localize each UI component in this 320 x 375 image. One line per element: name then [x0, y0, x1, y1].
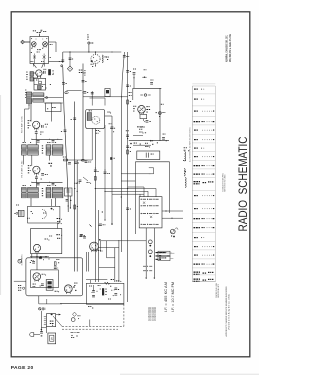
wire — [97, 210, 99, 282]
label grid — [36, 38, 44, 41]
wire — [94, 160, 96, 282]
capacitor C38 — [83, 237, 86, 239]
label 12BE6 — [133, 106, 150, 113]
wire — [86, 280, 107, 284]
resistor R16 — [54, 262, 59, 266]
extra res on x74 — [74, 205, 78, 209]
wire — [91, 91, 93, 106]
power labels — [89, 285, 111, 299]
tone control cluster — [71, 315, 80, 321]
table row — [194, 279, 214, 282]
table row — [194, 99, 204, 100]
table row — [194, 174, 215, 175]
footnote A line 1 (vertical) — [215, 282, 218, 298]
wire — [134, 162, 136, 234]
extra res on x127 — [127, 150, 131, 154]
table row — [194, 208, 214, 209]
coil box under V7 — [140, 115, 147, 122]
capacitor C47 — [162, 134, 165, 140]
grid cap blob — [91, 60, 93, 62]
table row rule — [192, 93, 215, 95]
blob — [68, 205, 71, 208]
wire — [24, 155, 50, 166]
capacitor C39 — [66, 200, 72, 202]
label under tube — [33, 284, 36, 287]
power cap dots — [97, 289, 122, 297]
wire — [24, 109, 26, 142]
svg-text:RADIO SCHEMATIC: RADIO SCHEMATIC — [237, 137, 250, 232]
capacitor C27 — [85, 161, 92, 163]
osc box label — [46, 84, 52, 89]
tube V11 audio output — [33, 273, 41, 282]
neck wire — [33, 64, 44, 68]
wire — [67, 159, 93, 161]
tube V1B osc — [43, 42, 48, 48]
junction — [81, 160, 82, 161]
capacitor C14b — [52, 183, 55, 185]
table row rule — [192, 168, 215, 170]
phono cartridge P1 — [16, 210, 24, 216]
terminal blob on box — [51, 313, 53, 315]
table row rule — [192, 105, 215, 107]
extra cap on x127 — [126, 208, 131, 210]
table row — [194, 218, 215, 219]
wire — [76, 160, 78, 272]
right coil labels — [183, 160, 186, 172]
label 2ND IF (vertical) — [20, 160, 23, 178]
capacitor C17 — [82, 80, 87, 82]
wire — [38, 76, 41, 78]
IF transformer T1 secondary — [33, 93, 44, 102]
capacitor C34 — [40, 284, 44, 287]
label 3 — [41, 329, 42, 330]
detector transformer box T6 — [86, 110, 105, 129]
junction — [165, 210, 172, 218]
lamp label box 1 — [158, 251, 174, 255]
blob — [99, 239, 101, 241]
wire — [105, 115, 112, 117]
wire — [57, 223, 59, 229]
switch wafer row 2 — [141, 205, 159, 206]
label L1 values — [26, 72, 27, 80]
title RADIO SCHEMATIC (vertical) — [237, 137, 250, 232]
resistor R10 — [127, 100, 131, 104]
table row — [194, 148, 204, 149]
capacitor C15b — [64, 92, 69, 94]
table row rule — [192, 249, 215, 251]
wire — [69, 52, 71, 66]
table note (vertical) — [189, 127, 192, 162]
wire — [40, 311, 42, 332]
table row rule — [192, 189, 215, 191]
junction — [51, 103, 52, 104]
wire — [38, 296, 40, 304]
wire — [129, 88, 133, 100]
arrow right — [56, 314, 61, 316]
table row rule — [192, 159, 215, 161]
tube V5 FM detector — [91, 54, 100, 63]
tube V1A RF amp — [32, 42, 37, 48]
label top of box — [89, 109, 92, 112]
label above V13 — [74, 283, 77, 286]
resistor R18 zigzag — [104, 282, 109, 284]
trimmer capacitor C3 — [43, 54, 46, 61]
capacitor C37 — [80, 235, 85, 237]
capacitor C33 — [54, 267, 58, 269]
extra cap on x66 — [61, 130, 67, 132]
wire — [133, 87, 162, 89]
capacitor C22 — [126, 146, 131, 148]
capacitor C18 — [91, 92, 94, 94]
tube V10 audio output — [33, 244, 40, 252]
marks inside tuner box — [31, 48, 43, 53]
blob — [171, 235, 175, 237]
wire — [90, 98, 106, 106]
output transformer T7 — [46, 280, 53, 291]
wire — [112, 193, 144, 195]
audio output box — [31, 229, 62, 254]
wire V5 to top — [95, 52, 97, 54]
wire — [35, 173, 37, 187]
table bottom rule — [192, 281, 215, 283]
capacitor C24 — [94, 170, 99, 172]
junction ring — [46, 97, 48, 99]
label — [31, 211, 33, 214]
wire — [28, 104, 30, 106]
link marks — [42, 188, 44, 196]
audio link wires — [31, 254, 33, 258]
wire — [30, 104, 32, 122]
capacitor C23 — [104, 172, 110, 174]
cluster y181 — [77, 180, 81, 183]
terminal cluster — [59, 60, 64, 67]
marks right of T6 — [107, 112, 111, 114]
table row — [194, 237, 204, 238]
capacitor on bus — [81, 160, 86, 162]
table top rule — [192, 85, 215, 87]
lamp label box 2 — [158, 256, 173, 260]
phono input diamond — [67, 66, 72, 71]
wire — [44, 97, 63, 99]
bus wire — [31, 182, 62, 183]
note IF=455KC AM (vertical) — [164, 282, 168, 312]
wire — [67, 200, 69, 212]
table row rule — [192, 212, 215, 214]
svg-text:SHOWN FOR ALL UNITS: SHOWN FOR ALL UNITS — [217, 284, 220, 298]
label right of box — [109, 122, 112, 125]
wire — [31, 198, 56, 206]
svg-text:WITH VTVM TO CHAS.: WITH VTVM TO CHAS. — [224, 174, 227, 192]
extra cap on x127 — [126, 71, 131, 96]
table row — [194, 246, 214, 247]
wire — [105, 190, 148, 192]
wire — [104, 189, 105, 221]
capacitor C28 — [156, 112, 166, 117]
label stack left of V4 — [28, 165, 31, 173]
component box right of det — [105, 88, 110, 96]
marks bottom right — [56, 258, 59, 261]
filter box — [65, 188, 73, 196]
contact marks bottom — [146, 277, 156, 278]
capacitor C12b — [52, 141, 55, 143]
table row rule — [192, 115, 215, 117]
table row rule — [192, 221, 215, 223]
wire — [35, 129, 37, 145]
table row — [194, 165, 215, 166]
label T4 values — [23, 184, 32, 187]
junction — [89, 224, 92, 227]
diagonal stub — [83, 177, 88, 181]
tube V4 2nd IF amplifier — [33, 166, 40, 174]
wire — [111, 116, 113, 225]
row X marks — [143, 202, 152, 218]
wire — [127, 52, 129, 302]
label T5 values — [47, 184, 56, 187]
wire — [60, 303, 124, 305]
oscillator coil L2 — [38, 85, 42, 89]
capacitor C8 — [62, 83, 67, 85]
label T3 values — [47, 141, 56, 144]
label FM IF AMP (vertical) — [20, 115, 23, 133]
label in osc box — [36, 80, 43, 87]
IF transformer T4 — [22, 188, 39, 198]
label right of tube — [42, 274, 47, 276]
capacitor C16 — [83, 92, 89, 94]
table row — [194, 139, 214, 140]
filter box corner labels — [111, 279, 122, 282]
table row — [194, 121, 215, 122]
wire — [14, 212, 16, 214]
wire — [133, 144, 151, 146]
capacitor C19 — [123, 56, 129, 58]
terminal B+ line — [160, 88, 164, 140]
link marks — [42, 145, 44, 153]
cluster — [137, 126, 143, 129]
marks near tuner box — [31, 38, 52, 58]
label T2 values — [23, 141, 32, 144]
capacitor C36 — [99, 224, 106, 226]
wire — [128, 187, 144, 197]
bus wire — [31, 139, 62, 140]
vertical pair to filter — [86, 252, 88, 272]
cluster — [88, 306, 93, 308]
note IF=10.7MC FM (vertical) — [171, 282, 175, 312]
capacitor C12a — [37, 141, 40, 143]
jack J1 — [30, 333, 40, 337]
footnote A line 2 (vertical) — [217, 284, 220, 298]
wire — [104, 125, 106, 189]
table row rule — [192, 202, 215, 204]
wire — [39, 34, 40, 37]
small shield box — [46, 103, 62, 112]
wire — [133, 135, 143, 137]
wire — [121, 180, 135, 182]
marks y183 — [87, 182, 92, 184]
svg-text:I.F. = 455 KC AM: I.F. = 455 KC AM — [164, 282, 168, 312]
table row rule — [192, 267, 215, 269]
tube V7 AM converter — [138, 106, 146, 115]
label 6V6 — [45, 236, 53, 241]
junction blob — [102, 211, 113, 224]
divider — [34, 84, 46, 86]
svg-text:PAGE 20: PAGE 20 — [11, 365, 34, 371]
cluster — [139, 132, 146, 134]
svg-text:S: S — [51, 337, 53, 341]
wire — [25, 104, 30, 109]
table row — [194, 130, 214, 131]
tube V8 tuning indicator — [171, 228, 179, 234]
switch contact box S1 — [139, 197, 162, 228]
wire — [67, 90, 82, 92]
wire — [36, 252, 37, 270]
capacitor C41 — [91, 285, 95, 297]
table row rule — [192, 83, 215, 85]
winding L5 — [87, 113, 91, 121]
page number PAGE 20 — [11, 365, 34, 371]
FM tuner shield box — [30, 37, 49, 64]
label VOLUME (vertical) — [21, 254, 23, 266]
wire — [107, 241, 115, 258]
label stack left of V3 — [28, 120, 31, 128]
wire — [100, 241, 102, 252]
dashed wire — [62, 328, 118, 330]
capacitor C10 — [35, 132, 38, 134]
oscillator coil L1 — [30, 72, 33, 81]
table row — [194, 195, 214, 196]
wire — [99, 266, 115, 268]
cluster small — [79, 70, 85, 74]
wire — [63, 51, 122, 53]
label under tube — [91, 64, 94, 67]
IF transformer T1 primary — [27, 92, 32, 104]
label 1/2 12AT7 — [31, 49, 41, 53]
coil L4 — [102, 55, 107, 63]
wire — [88, 44, 89, 52]
table row rule — [192, 133, 215, 135]
blob — [73, 286, 76, 291]
tiny note block (vertical) — [148, 306, 158, 321]
label marks — [55, 291, 60, 293]
wire — [44, 102, 63, 104]
wire — [94, 128, 96, 160]
B+ feed wire — [83, 96, 128, 97]
table row — [194, 111, 214, 112]
wire V5 bottom — [95, 64, 96, 67]
cluster under V12 — [93, 249, 103, 252]
wire — [62, 52, 64, 63]
marks pair top — [74, 183, 78, 192]
wire — [24, 41, 30, 43]
svg-text:ALL RESISTORS 1/2 WATT UNLESS: ALL RESISTORS 1/2 WATT UNLESS NOTED — [189, 127, 192, 162]
wire — [63, 67, 68, 200]
capacitor C14a — [37, 183, 40, 185]
contacts column — [44, 317, 47, 325]
wire — [68, 188, 70, 210]
label C terminal — [142, 69, 146, 78]
marks row under tuner — [31, 60, 44, 63]
power inner box — [31, 270, 59, 288]
coupling coil (dashed arc) — [42, 210, 47, 219]
tube V13 output (dotted) — [64, 285, 72, 294]
table row — [194, 89, 204, 90]
RF coil L6b — [184, 169, 185, 177]
oscillator coil L6 — [184, 152, 185, 162]
phono jack box — [46, 314, 55, 327]
antenna input terminal — [21, 40, 25, 44]
junction — [49, 259, 50, 260]
junction dots on y52 — [69, 51, 112, 52]
marks right of V5 — [106, 57, 109, 60]
switch contacts — [71, 332, 80, 338]
wire — [121, 173, 150, 175]
wire — [121, 52, 124, 108]
table row — [194, 264, 215, 265]
cluster right of V4 — [41, 174, 48, 180]
table note 2 (vertical) — [222, 172, 227, 192]
junction row — [30, 256, 49, 257]
capacitor C44 — [141, 94, 151, 96]
svg-text:FM. IF. AMP. 10.7MC: FM. IF. AMP. 10.7MC — [20, 115, 23, 133]
switch contacts — [143, 266, 152, 272]
cluster right of box — [57, 218, 62, 224]
table row rule — [192, 231, 215, 233]
switch out wire — [162, 210, 183, 212]
wire — [115, 240, 119, 282]
dashed wire vertical — [123, 304, 125, 326]
resistor R12 — [63, 157, 68, 161]
dark component on x112 — [110, 157, 115, 160]
pilot lamp PL2 — [148, 250, 152, 257]
antenna terminal — [88, 42, 94, 44]
switch wafer row 1 — [141, 199, 159, 200]
wire — [39, 303, 62, 305]
wire — [49, 60, 63, 62]
table row rule — [192, 274, 215, 276]
label col — [47, 107, 56, 109]
table row rule — [192, 240, 215, 242]
label — [40, 132, 43, 135]
antenna coil L7 — [185, 178, 186, 188]
dark marks right — [48, 163, 52, 167]
AC interlock cluster — [18, 285, 25, 291]
labels above tuner box — [33, 30, 46, 32]
table row rule — [192, 124, 215, 126]
tone control diamond — [73, 312, 77, 316]
det box bottom wire — [94, 125, 96, 128]
diagonal wire — [53, 316, 62, 327]
switch wafer row 3 — [141, 213, 159, 214]
terminal blob — [51, 199, 54, 210]
capacitor C6 — [43, 69, 46, 74]
marks det out — [96, 130, 101, 133]
capacitor C13 — [35, 177, 38, 179]
table row — [194, 272, 214, 275]
wire — [46, 299, 48, 304]
dashed wire — [62, 325, 124, 327]
capacitor C26 — [74, 162, 79, 164]
svg-text:VOLUME CONTROL: VOLUME CONTROL — [21, 254, 23, 266]
table row — [194, 227, 215, 228]
wire — [140, 189, 156, 197]
wire — [101, 240, 147, 242]
label col left of T1 — [25, 90, 26, 98]
power section outer box — [26, 258, 83, 296]
svg-text:(Printed in U.S.A. by the Co.: (Printed in U.S.A. by the Co. 1952) — [228, 294, 231, 330]
resistor R11 — [94, 177, 96, 181]
capacitor C32 — [30, 262, 35, 264]
power filter box — [86, 283, 124, 304]
footnote B line 2 (vertical) — [228, 294, 231, 330]
